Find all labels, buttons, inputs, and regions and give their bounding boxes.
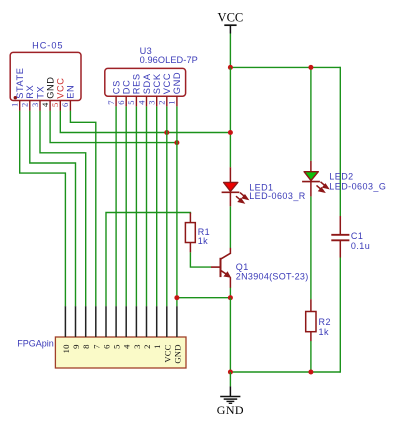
svg-text:C1: C1 (351, 231, 363, 241)
wire U3 GND column to FPGA (176, 106, 178, 306)
wire R1 bottom to Q1 base (190, 252, 211, 267)
svg-text:GND: GND (172, 344, 182, 363)
wire U3 SCK column to FPGA (156, 106, 158, 306)
pin 2 RX of HC-05 (20, 85, 35, 111)
wire U3 VCC column to FPGA (166, 106, 168, 306)
svg-text:FPGApin: FPGApin (17, 339, 54, 349)
svg-text:4: 4 (136, 100, 146, 105)
wire C1 bottom to rail (339, 257, 341, 372)
svg-text:0.96OLED-7P: 0.96OLED-7P (140, 55, 198, 65)
svg-text:5: 5 (126, 101, 136, 105)
wire C1 branch down (339, 67, 341, 216)
pin 3 TX of HC-05 (30, 86, 46, 111)
wire HC-05 pin6 EN to FPGA pin7 (70, 111, 95, 307)
svg-text:6: 6 (102, 344, 112, 349)
junction emitter rail at main vertical (228, 295, 233, 300)
wire HC-05 pin2 RX to FPGA pin9 (30, 111, 76, 307)
svg-text:TX: TX (35, 86, 45, 99)
svg-text:GND: GND (217, 403, 244, 417)
svg-text:6: 6 (116, 101, 126, 105)
svg-text:10: 10 (61, 344, 71, 353)
svg-text:SDA: SDA (142, 73, 152, 94)
svg-text:4: 4 (122, 344, 132, 349)
svg-text:SCK: SCK (152, 73, 162, 94)
resistor R1 (185, 213, 195, 253)
junction VCC row at U3 VCC column (164, 130, 169, 135)
LED D LED2 green (302, 161, 328, 197)
wire U3 DC column to FPGA (125, 106, 127, 306)
wire U3 SDA column to FPGA (146, 106, 148, 306)
svg-text:1: 1 (167, 101, 177, 105)
svg-text:7: 7 (106, 101, 116, 105)
svg-text:LED2: LED2 (329, 172, 353, 182)
svg-text:5: 5 (50, 103, 60, 107)
svg-text:1: 1 (152, 344, 162, 349)
svg-text:2N3904(SOT-23): 2N3904(SOT-23) (236, 272, 309, 282)
pin 7 of FPGApin (91, 306, 101, 349)
svg-text:5: 5 (112, 344, 122, 349)
junction VCC row at main vertical (228, 130, 233, 135)
svg-text:GND: GND (172, 72, 182, 94)
wire HC-05 pin1 STATE to FPGA pin10 (20, 111, 66, 307)
pin 4 GND of HC-05 (40, 76, 56, 110)
pin 6 of FPGApin (102, 306, 112, 349)
svg-text:VCC: VCC (162, 344, 172, 362)
svg-text:8: 8 (81, 344, 91, 349)
wire HC-05 pin5 VCC row (60, 111, 230, 133)
wire bottom GND rail (230, 371, 340, 373)
svg-text:HC-05: HC-05 (32, 40, 63, 50)
pin 7 CS of U3 (106, 80, 122, 106)
svg-text:VCC: VCC (162, 73, 172, 94)
wire Q1 emitter to GND rail (229, 288, 231, 298)
pin 5 of FPGApin (112, 306, 122, 349)
junction bottom rail at GND stem (228, 370, 233, 375)
wire U3 RES column to FPGA (135, 106, 137, 306)
wire LED2 branch down (310, 67, 312, 160)
wire U3 CS column to FPGA (115, 106, 117, 306)
svg-text:3: 3 (132, 344, 142, 349)
wire R2 bottom to rail (310, 341, 312, 372)
pin VCC of FPGApin (162, 306, 172, 362)
module HC-05 (10, 40, 81, 100)
resistor R2 (306, 299, 316, 341)
junction bottom rail at R2 (308, 370, 313, 375)
svg-text:STATE: STATE (15, 67, 25, 98)
wire main vertical to bottom rail (229, 298, 231, 372)
svg-text:Q1: Q1 (236, 262, 249, 272)
wire LED1 feed (229, 67, 231, 167)
svg-text:LED-0603_G: LED-0603_G (329, 181, 386, 191)
svg-text:0.1u: 0.1u (351, 241, 370, 251)
wire VCC stub to top rail (229, 34, 231, 68)
svg-text:1k: 1k (319, 327, 329, 337)
pin 2 of FPGApin (142, 306, 152, 349)
svg-text:2: 2 (20, 103, 30, 107)
svg-text:LED-0603_R: LED-0603_R (249, 191, 306, 201)
pin 10 of FPGApin (61, 306, 71, 353)
pin 1 GND of U3 (167, 72, 183, 106)
pin 3 SCK of U3 (147, 73, 163, 106)
svg-text:3: 3 (147, 101, 157, 105)
svg-text:4: 4 (40, 102, 50, 107)
ground GND (217, 386, 244, 417)
pin 1 of FPGApin (152, 306, 162, 349)
svg-text:R2: R2 (319, 317, 331, 327)
svg-text:7: 7 (91, 344, 101, 349)
junction top rail at LED2 branch (308, 65, 313, 70)
pin GND of FPGApin (172, 306, 182, 363)
wire emitter GND rail (177, 297, 231, 299)
wire GND stem (229, 372, 231, 386)
svg-text:RES: RES (132, 73, 142, 94)
svg-text:6: 6 (60, 103, 70, 107)
pin 6 EN of HC-05 (60, 85, 76, 111)
pin 3 of FPGApin (132, 306, 142, 349)
pin 1 STATE of HC-05 (10, 67, 26, 110)
pin 4 of FPGApin (122, 306, 132, 349)
connector FPGApin (17, 337, 186, 368)
pin 4 SDA of U3 (136, 73, 152, 106)
wire top VCC rail (230, 66, 340, 68)
wire LED1 cathode to Q1 collector (229, 206, 231, 248)
capacitor C1 (331, 216, 349, 258)
wire FPGA pin6 to R1 top (106, 213, 190, 307)
pin 5 RES of U3 (126, 73, 142, 106)
wire HC-05 pin3 TX to FPGA pin8 (40, 111, 86, 307)
junction top rail at main vertical (228, 65, 233, 70)
junction emitter rail at GND column (174, 295, 179, 300)
svg-text:3: 3 (30, 103, 40, 107)
svg-text:CS: CS (111, 80, 121, 94)
pin 8 of FPGApin (81, 306, 91, 349)
svg-text:1k: 1k (198, 236, 208, 246)
LED D LED1 red (222, 167, 248, 206)
pin 9 of FPGApin (71, 306, 81, 349)
svg-text:2: 2 (142, 344, 152, 349)
svg-text:VCC: VCC (56, 78, 66, 99)
svg-text:VCC: VCC (218, 11, 244, 25)
pin 5 VCC of HC-05 (50, 78, 66, 111)
svg-text:EN: EN (66, 85, 76, 99)
pin 2 VCC of U3 (157, 73, 173, 106)
svg-text:1: 1 (10, 103, 20, 107)
wire HC-05 pin4 GND row (50, 111, 177, 143)
junction GND row at U3 GND column (174, 140, 179, 145)
power symbol VCC (218, 11, 244, 34)
svg-text:DC: DC (122, 80, 132, 95)
IC U3 0.96OLED-7P (105, 46, 198, 96)
svg-text:RX: RX (25, 85, 35, 99)
svg-text:GND: GND (45, 76, 55, 98)
svg-text:2: 2 (157, 101, 167, 105)
svg-text:9: 9 (71, 344, 81, 349)
wire LED2 to R2 (310, 196, 312, 299)
pin 6 DC of U3 (116, 80, 132, 107)
transistor Q1 NPN (211, 248, 231, 288)
